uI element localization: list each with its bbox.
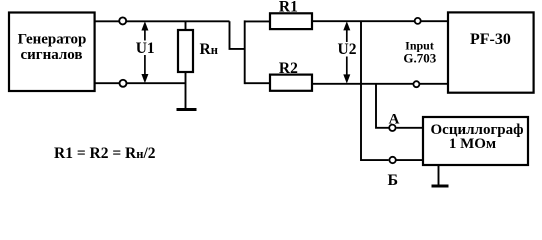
- node Б terminal circle: [389, 157, 395, 163]
- oscilloscope label: [431, 122, 524, 152]
- node bar joining R1 and R2 inputs: [244, 20, 246, 84]
- svg-text:G.703: G.703: [403, 51, 436, 66]
- svg-text:1 МОм: 1 МОм: [449, 136, 496, 152]
- terminal circle top-left: [119, 17, 126, 24]
- terminal circle input top: [415, 18, 421, 24]
- voltage arrow U2: [343, 21, 350, 83]
- ground under Rн: [177, 108, 197, 111]
- wire bottom to node A: [376, 84, 389, 128]
- svg-text:R1 = R2 = Rн/2: R1 = R2 = Rн/2: [54, 145, 156, 162]
- PF-30 box: [448, 12, 534, 92]
- ground under oscilloscope: [432, 165, 449, 186]
- resistor R1: [245, 13, 312, 29]
- oscilloscope box: [423, 117, 528, 165]
- wire node A to oscilloscope: [396, 127, 423, 129]
- svg-text:сигналов: сигналов: [20, 47, 82, 63]
- svg-text:Генератор: Генератор: [18, 31, 87, 47]
- svg-text:U1: U1: [136, 40, 155, 57]
- svg-text:PF-30: PF-30: [470, 31, 511, 48]
- voltage arrow U1: [141, 21, 148, 83]
- label U2: [336, 41, 358, 58]
- wire R1 to input top: [312, 20, 448, 22]
- terminal circle input bottom: [413, 81, 419, 87]
- signal generator box: [9, 13, 95, 92]
- wire step down to splitter: [230, 21, 245, 49]
- svg-text:А: А: [389, 111, 400, 127]
- wire bottom from generator to Rн: [95, 82, 186, 84]
- resistor Rн: [178, 21, 193, 108]
- svg-text:Б: Б: [388, 172, 399, 189]
- generator label: [18, 31, 87, 63]
- terminal circle bottom-left: [120, 80, 127, 87]
- svg-text:U2: U2: [338, 41, 357, 58]
- svg-text:R1: R1: [279, 0, 298, 16]
- svg-text:Rн: Rн: [200, 41, 218, 58]
- svg-text:R2: R2: [279, 60, 298, 77]
- label U1: [134, 40, 156, 57]
- label Input G.703: [403, 38, 436, 65]
- node A terminal circle: [389, 125, 395, 131]
- wire top from generator to step: [95, 20, 230, 22]
- resistor R2: [245, 75, 312, 91]
- wire top to node Б: [361, 21, 389, 160]
- wire node Б to oscilloscope: [397, 159, 424, 161]
- wire R2 to input bottom: [312, 83, 448, 85]
